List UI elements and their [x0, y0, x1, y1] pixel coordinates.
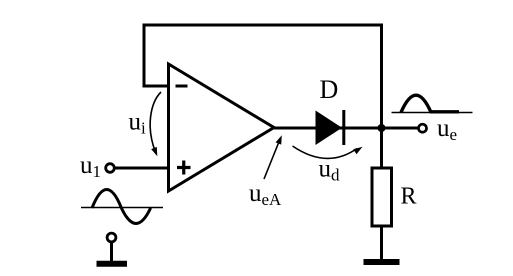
- svg-text:ud: ud: [319, 156, 341, 185]
- svg-text:ue: ue: [437, 115, 457, 144]
- svg-text:u1: u1: [80, 152, 101, 181]
- svg-text:D: D: [320, 75, 339, 104]
- svg-text:ueA: ueA: [249, 180, 282, 209]
- svg-text:ui: ui: [129, 109, 147, 138]
- svg-text:R: R: [401, 184, 417, 210]
